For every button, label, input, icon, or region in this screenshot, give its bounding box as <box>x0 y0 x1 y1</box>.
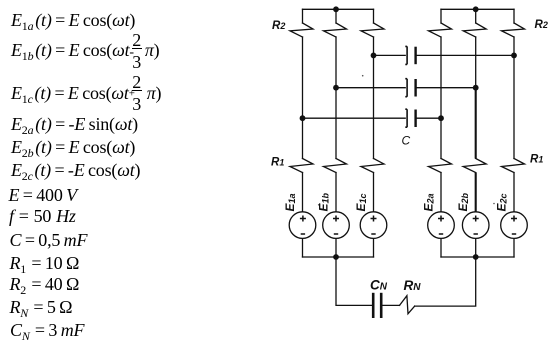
svg-text:RN: RN <box>404 278 422 293</box>
svg-text:E2c: E2c <box>495 193 509 211</box>
svg-text:R2: R2 <box>535 19 548 31</box>
svg-text:R1: R1 <box>530 154 543 166</box>
svg-text:R2: R2 <box>272 20 285 32</box>
svg-text:R1: R1 <box>271 156 284 168</box>
svg-text:E2a: E2a <box>422 193 436 211</box>
svg-text:CN: CN <box>370 277 388 292</box>
svg-text:E1a: E1a <box>283 193 297 211</box>
svg-text:E1b: E1b <box>317 192 331 211</box>
svg-text:E1c: E1c <box>354 193 368 211</box>
svg-text:C: C <box>402 134 411 148</box>
svg-text:E2b: E2b <box>456 192 470 211</box>
